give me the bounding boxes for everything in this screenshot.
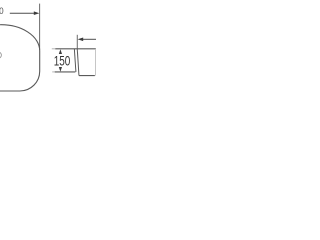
svg-text:0: 0 <box>0 6 4 17</box>
outer wall (side view, slightly slanted) <box>77 49 79 76</box>
extension line (side view, above rim) <box>76 35 78 49</box>
base line (side view outer bottom) <box>79 75 95 77</box>
rim line (side view top) <box>55 48 96 50</box>
arrowhead right <box>34 11 40 15</box>
basin outline (top view, cut off at left) <box>0 25 40 91</box>
extension line (right edge of basin extended up) <box>39 4 41 50</box>
background <box>0 0 96 96</box>
inner bottom line (basin inside bottom) <box>55 71 76 73</box>
right wall (faint, at crop edge) <box>95 49 97 76</box>
150 dimension: up arrow <box>59 49 62 54</box>
faucet hole circle (partially visible at crop edge) <box>0 52 1 58</box>
inner wall (side view, slightly slanted) <box>74 49 76 72</box>
dimension line (left view, horizontal with right arrow) <box>10 12 36 14</box>
svg-text:150: 150 <box>54 53 71 69</box>
150 dimension: down arrow <box>59 67 62 72</box>
dimension arrow (side view width, pointing left) <box>83 38 96 40</box>
